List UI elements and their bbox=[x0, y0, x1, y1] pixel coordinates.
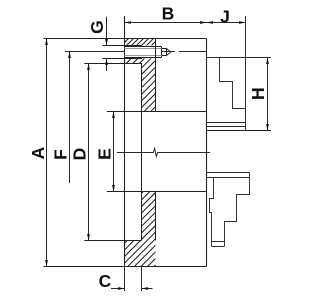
recess face line bbox=[141, 64, 143, 241]
screw shading lines bbox=[125, 49, 162, 56]
dimension F line bbox=[69, 52, 71, 184]
dimension G line bbox=[106, 17, 108, 71]
upper jaw outline bbox=[207, 58, 246, 131]
svg-text:A: A bbox=[28, 146, 48, 159]
upper jaw bottom / H bottom extension bbox=[207, 130, 272, 132]
svg-text:B: B bbox=[162, 3, 175, 23]
screw tip small cylinder bbox=[162, 49, 167, 56]
wall front boundary lower bbox=[155, 192, 157, 241]
wall front boundary upper bbox=[155, 39, 157, 112]
screw centerline bbox=[65, 51, 207, 53]
screw body bbox=[125, 47, 162, 58]
upper jaw top / H top extension bbox=[220, 57, 272, 59]
svg-text:C: C bbox=[99, 271, 112, 291]
dimension H line bbox=[267, 58, 269, 131]
J right extension / jaw right face bbox=[245, 16, 247, 131]
body front face bbox=[206, 39, 208, 267]
lower jaw bottom band bbox=[212, 242, 225, 247]
dimension D line bbox=[88, 64, 90, 241]
screw hole bottom edge bbox=[103, 58, 143, 60]
bore top edge bbox=[107, 111, 207, 113]
svg-text:D: D bbox=[70, 148, 90, 161]
hatched top flange band bbox=[0, 0, 202, 300]
screw hole top edge bbox=[103, 45, 143, 47]
body bottom edge bbox=[44, 266, 207, 268]
lower jaw left outline bbox=[210, 178, 214, 242]
dimension A line bbox=[46, 39, 48, 267]
dimension J line bbox=[207, 22, 246, 24]
svg-text:F: F bbox=[50, 149, 70, 160]
dimension E line bbox=[113, 112, 115, 192]
svg-text:E: E bbox=[95, 148, 115, 160]
body back face bbox=[124, 16, 126, 267]
svg-text:G: G bbox=[87, 20, 107, 34]
lower jaw right stepped outline bbox=[225, 173, 250, 247]
svg-text:J: J bbox=[220, 7, 230, 27]
upper jaw bottom step lines bbox=[207, 123, 246, 127]
dimension C line bbox=[111, 288, 153, 290]
bottom flange top edge bbox=[84, 240, 141, 242]
flange bottom edge bbox=[84, 63, 142, 65]
main centerline with break bbox=[117, 148, 210, 156]
lower jaw top band bbox=[207, 173, 250, 178]
screw cone tip bbox=[167, 49, 171, 56]
svg-text:H: H bbox=[248, 87, 268, 100]
dimension C extensions bbox=[125, 267, 142, 291]
dimension B line bbox=[125, 22, 207, 24]
bore bottom edge bbox=[107, 191, 207, 193]
body top edge bbox=[44, 38, 207, 40]
